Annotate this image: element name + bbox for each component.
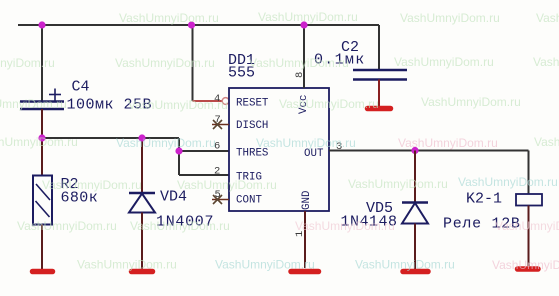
wire R2 to ground bbox=[41, 225, 43, 270]
diode VD4 bbox=[129, 193, 155, 213]
watermark row2 bbox=[0, 55, 559, 70]
pin 5 stub with X bbox=[212, 195, 229, 204]
wire VD4 to ground bbox=[141, 213, 143, 270]
wire relay drop bbox=[528, 151, 530, 195]
svg-text:VashUmnyiDom.ru: VashUmnyiDom.ru bbox=[400, 11, 500, 25]
svg-text:VashUmnyiDom.ru: VashUmnyiDom.ru bbox=[258, 10, 358, 24]
svg-text:VashUmnyiDom.ru: VashUmnyiDom.ru bbox=[0, 135, 78, 149]
svg-text:VashUmnyiDom.ru: VashUmnyiDom.ru bbox=[295, 219, 395, 233]
svg-text:VashUmnyiDom.ru: VashUmnyiDom.ru bbox=[17, 219, 117, 233]
pin 7 stub with X bbox=[212, 120, 229, 129]
svg-text:VashUmnyiDom.ru: VashUmnyiDom.ru bbox=[533, 55, 559, 69]
watermark row5 bbox=[42, 175, 558, 192]
svg-text:K2-1: K2-1 bbox=[466, 191, 502, 208]
wire C2 to ground bbox=[378, 80, 380, 107]
wire TRIG bbox=[179, 174, 229, 176]
resistor R2 bbox=[33, 176, 52, 225]
svg-text:VashUmnyiDom.ru: VashUmnyiDom.ru bbox=[215, 258, 315, 272]
node top rail RESET bbox=[188, 21, 195, 28]
svg-text:680к: 680к bbox=[61, 190, 99, 207]
ground below relay bbox=[518, 266, 539, 272]
svg-text:VashUmnyiDom.ru: VashUmnyiDom.ru bbox=[177, 178, 277, 192]
svg-text:C4: C4 bbox=[72, 79, 90, 96]
wire RESET horizontal bbox=[193, 100, 223, 102]
svg-text:VashUmnyiDom.ru: VashUmnyiDom.ru bbox=[128, 98, 228, 112]
diode VD5 bbox=[402, 203, 428, 224]
node THRES feeder bbox=[175, 147, 182, 154]
ground below VD5 bbox=[403, 269, 428, 275]
node top rail left bbox=[38, 21, 45, 28]
svg-text:8: 8 bbox=[294, 72, 306, 78]
node top rail Vcc bbox=[300, 21, 307, 28]
node at C4 branch bbox=[38, 134, 45, 141]
svg-text:VashUmnyiDom.ru: VashUmnyiDom.ru bbox=[279, 97, 379, 111]
wire left vertical mid bbox=[41, 109, 43, 176]
svg-text:VashUmnyiDom.ru: VashUmnyiDom.ru bbox=[534, 135, 559, 149]
svg-text:VashUmnyiDom.ru: VashUmnyiDom.ru bbox=[394, 55, 494, 69]
svg-text:VashUmnyiDom.ru: VashUmnyiDom.ru bbox=[492, 258, 559, 272]
watermark row7 bbox=[77, 258, 559, 273]
pin 4 bubble bbox=[222, 98, 229, 105]
svg-text:GND: GND bbox=[301, 191, 313, 210]
svg-text:DISCH: DISCH bbox=[236, 120, 268, 132]
svg-text:RESET: RESET bbox=[236, 98, 269, 110]
watermark row3 bbox=[0, 95, 521, 112]
svg-text:VashUmnyiDom.ru: VashUmnyiDom.ru bbox=[458, 175, 558, 189]
wire mid horizontal bbox=[42, 137, 179, 139]
watermark row4 bbox=[0, 135, 559, 150]
wire VD5 top bbox=[414, 151, 416, 203]
wire left vertical upper bbox=[41, 25, 43, 101]
svg-text:VashUmnyiDom.ru: VashUmnyiDom.ru bbox=[130, 219, 230, 233]
svg-text:VashUmnyiDom.ru: VashUmnyiDom.ru bbox=[116, 136, 216, 150]
svg-text:VashUmnyiDom.ru: VashUmnyiDom.ru bbox=[42, 178, 142, 192]
wire RESET vertical bbox=[192, 25, 194, 101]
svg-text:VashUmnyiDom.ru: VashUmnyiDom.ru bbox=[398, 136, 498, 150]
wire C2 drop bbox=[378, 25, 380, 70]
svg-text:VashUmnyiDom.ru: VashUmnyiDom.ru bbox=[249, 56, 349, 70]
ground below IC bbox=[291, 269, 319, 275]
svg-text:VashUmnyiDom.ru: VashUmnyiDom.ru bbox=[355, 258, 455, 272]
svg-text:VashUmnyiDom.ru: VashUmnyiDom.ru bbox=[77, 258, 177, 272]
ground below C2 bbox=[368, 106, 391, 112]
relay K2-1 coil bbox=[516, 194, 542, 206]
svg-text:CONT: CONT bbox=[236, 195, 262, 207]
svg-text:7: 7 bbox=[215, 114, 221, 126]
wire THRES/TRIG feeder vertical bbox=[178, 138, 180, 175]
pin 8 wire bbox=[303, 25, 305, 88]
ground below R2 bbox=[33, 269, 53, 275]
wire OUT bbox=[329, 150, 529, 152]
wire THRES bbox=[179, 150, 229, 152]
ground below VD4 bbox=[132, 269, 153, 275]
wire VD4 top bbox=[141, 138, 143, 193]
svg-text:VashUmnyiDom.ru: VashUmnyiDom.ru bbox=[421, 95, 521, 109]
capacitor C2 bbox=[353, 70, 407, 80]
svg-text:VashUmnyiDom.ru: VashUmnyiDom.ru bbox=[495, 219, 559, 233]
svg-text:VashUmnyiDom.ru: VashUmnyiDom.ru bbox=[536, 11, 559, 25]
svg-text:VashUmnyiDom.ru: VashUmnyiDom.ru bbox=[119, 11, 219, 25]
svg-text:VashUmnyiDom.ru: VashUmnyiDom.ru bbox=[0, 97, 67, 111]
op-amp U1 555 body bbox=[229, 88, 329, 211]
pin 1 wire GND bbox=[304, 211, 306, 268]
wire VD5 to ground bbox=[414, 224, 416, 270]
svg-text:VashUmnyiDom.ru: VashUmnyiDom.ru bbox=[115, 56, 215, 70]
wire relay to ground bbox=[528, 206, 530, 267]
svg-text:VashUmnyiDom.ru: VashUmnyiDom.ru bbox=[256, 136, 356, 150]
node OUT VD5 bbox=[411, 147, 418, 154]
svg-text:2: 2 bbox=[214, 166, 220, 178]
watermark row1 bbox=[119, 10, 559, 25]
watermark row6 bbox=[17, 219, 559, 233]
svg-text:VashUmnyiDom.ru: VashUmnyiDom.ru bbox=[348, 177, 448, 191]
capacitor C4 bbox=[20, 89, 64, 110]
wire top rail bbox=[18, 24, 379, 26]
svg-text:VashUmnyiDom.ru: VashUmnyiDom.ru bbox=[0, 56, 55, 70]
node VD4 bbox=[138, 134, 145, 141]
